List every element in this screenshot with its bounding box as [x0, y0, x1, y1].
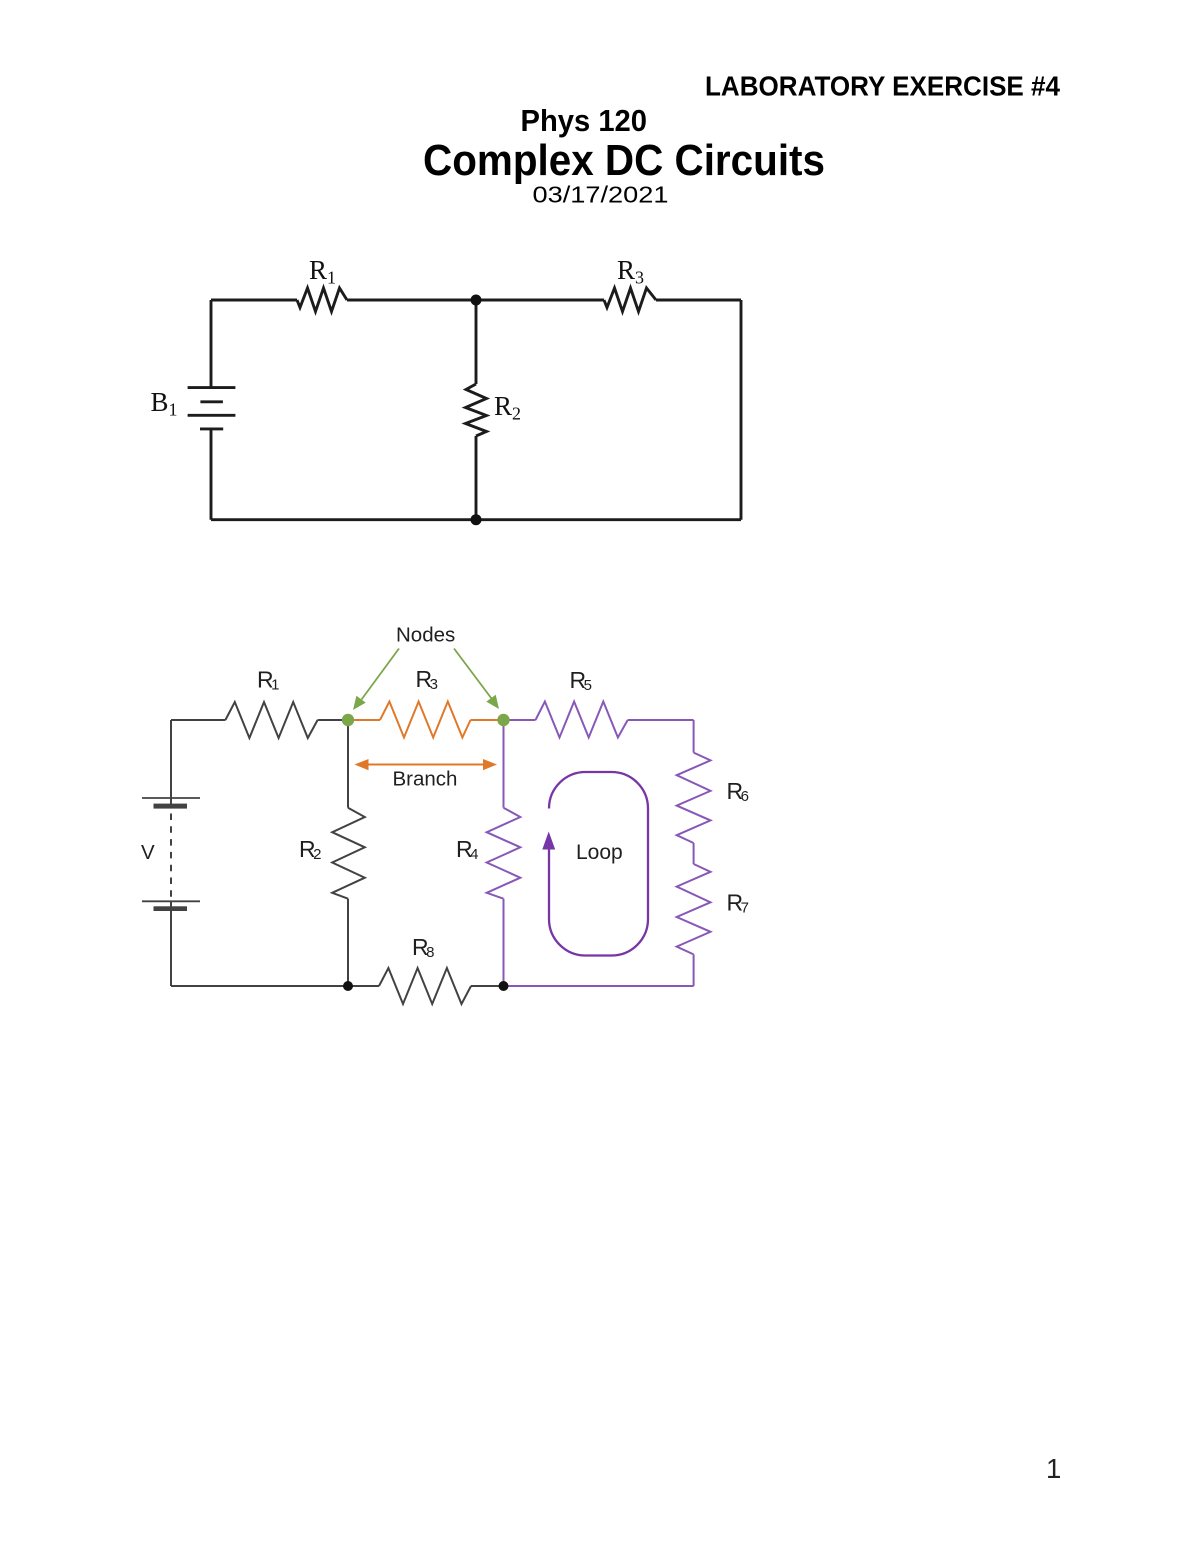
wire between R6 and R7 — [693, 843, 695, 864]
branch arrow line — [368, 764, 485, 766]
nodes arrow left head — [353, 696, 366, 710]
wire R4 branch lower — [503, 899, 505, 986]
wire top middle (R1 to R3) — [347, 299, 604, 302]
wire orange R3 to node2 — [471, 719, 504, 721]
svg-text:LABORATORY EXERCISE #4: LABORATORY EXERCISE #4 — [705, 71, 1060, 102]
branch arrow head left — [355, 759, 369, 770]
wire R4 branch upper — [503, 720, 505, 808]
resistor R3 — [604, 288, 656, 312]
svg-text:R3: R3 — [416, 666, 438, 693]
node 1 (green dot) — [342, 714, 354, 726]
resistor R5 — [536, 702, 628, 738]
wire top right — [656, 299, 741, 302]
wire c2 top left — [171, 719, 225, 721]
resistor R8 — [379, 968, 471, 1004]
svg-text:Complex DC Circuits: Complex DC Circuits — [423, 136, 825, 185]
nodes arrow right head — [486, 695, 499, 709]
wire right side — [740, 300, 743, 520]
nodes arrow left (green) — [362, 649, 400, 700]
node bottom left (black dot) — [343, 981, 353, 991]
wire R2 branch lower — [347, 899, 349, 986]
wire R5 to top right corner — [628, 719, 694, 721]
battery V plate long top — [142, 797, 200, 799]
loop arrow head — [542, 832, 555, 850]
node bottom middle — [471, 514, 482, 525]
svg-text:Loop: Loop — [576, 841, 623, 864]
wire left upper (top to battery) — [210, 300, 213, 388]
wire left vertical upper — [170, 720, 172, 809]
wire middle branch upper — [475, 300, 478, 384]
node 2 (green dot) — [497, 714, 509, 726]
battery B1 plate short — [200, 400, 223, 403]
svg-text:R8: R8 — [412, 934, 434, 961]
resistor R1 (circuit 2) — [225, 702, 317, 738]
battery V plate long lower — [142, 900, 200, 902]
wire orange node1 to R3 — [348, 719, 380, 721]
svg-text:R5: R5 — [570, 667, 592, 694]
loop arrow (dark purple rounded rectangle) — [549, 772, 648, 956]
svg-text:R4: R4 — [456, 836, 478, 863]
resistor R7 — [677, 864, 711, 954]
svg-text:03/17/2021: 03/17/2021 — [533, 182, 669, 208]
svg-text:B1: B1 — [151, 387, 178, 420]
svg-text:R1: R1 — [257, 667, 279, 694]
wire top left (B1 to R1) — [211, 299, 297, 302]
wire R2 branch upper — [347, 720, 349, 808]
resistor R4 — [487, 808, 521, 899]
battery B1 plate short bottom — [200, 427, 223, 430]
resistor R2 (circuit 2) — [332, 808, 365, 899]
wire R1 to node 1 — [318, 719, 348, 721]
resistor R6 — [677, 753, 711, 843]
nodes arrow right (green) — [454, 649, 492, 699]
battery B1 plate long top — [188, 386, 236, 389]
battery V thick plate bottom — [154, 906, 188, 911]
wire bottom purple — [504, 985, 694, 987]
wire left lower (battery to bottom) — [210, 429, 213, 520]
battery B1 plate long lower — [188, 414, 236, 417]
battery V dashed middle — [170, 814, 172, 899]
wire left vertical lower — [170, 901, 172, 986]
svg-text:V: V — [141, 841, 155, 864]
wire right vertical upper — [693, 720, 695, 753]
svg-text:R2: R2 — [299, 836, 321, 863]
resistor R1 — [297, 288, 347, 312]
svg-text:1: 1 — [1046, 1453, 1061, 1484]
wire purple node2 right — [504, 719, 536, 721]
resistor R3 (circuit 2, orange) — [380, 702, 471, 738]
svg-text:Nodes: Nodes — [396, 624, 455, 647]
node top middle — [471, 295, 482, 306]
node bottom right (black dot) — [499, 981, 509, 991]
wire R8 to node — [471, 985, 504, 987]
svg-text:Branch: Branch — [393, 768, 458, 791]
resistor R2 — [466, 384, 487, 436]
svg-text:Phys 120: Phys 120 — [521, 103, 648, 138]
svg-text:R3: R3 — [617, 255, 644, 288]
wire bottom — [211, 518, 741, 521]
svg-text:R2: R2 — [494, 391, 521, 424]
wire right vertical lower — [693, 954, 695, 986]
wire middle branch lower — [475, 436, 478, 520]
svg-text:R7: R7 — [727, 890, 749, 917]
branch arrow head right — [483, 759, 497, 770]
svg-text:R6: R6 — [727, 778, 749, 805]
wire bottom left — [171, 985, 348, 987]
svg-text:R1: R1 — [309, 255, 336, 288]
battery V thick plate top — [154, 804, 188, 809]
wire node to R8 — [348, 985, 379, 987]
